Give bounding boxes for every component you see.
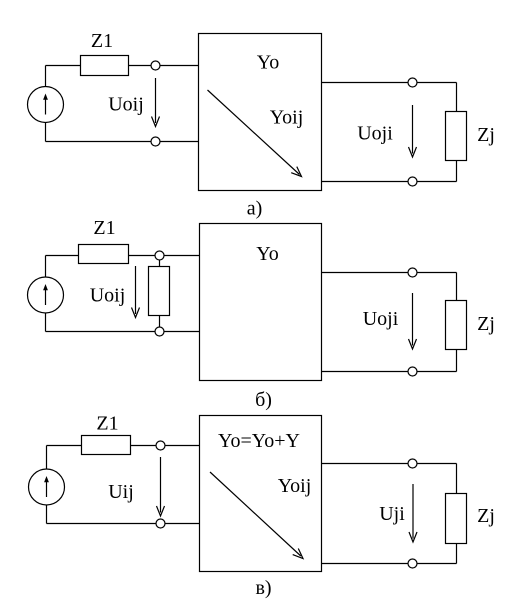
current source J1 circle (a) <box>28 87 64 123</box>
wire: b) shunt stub top <box>159 260 161 267</box>
svg-text:Yo=Yo+Y: Yo=Yo+Y <box>218 430 300 452</box>
wire: b) right bottom from box to load <box>322 371 457 373</box>
svg-text:Zj: Zj <box>477 313 495 335</box>
voltage arrow Uij (v) <box>157 457 165 516</box>
svg-text:Z1: Z1 <box>93 217 115 239</box>
svg-text:Uoij: Uoij <box>108 94 144 116</box>
svg-text:а): а) <box>247 198 263 220</box>
wire: b) right vertical from load bottom <box>456 350 458 372</box>
wire: b) shunt stub bottom <box>159 316 161 328</box>
terminal: a) output top <box>408 78 417 87</box>
wire: v) top from source to box <box>47 445 200 447</box>
wire: v) right vertical from load bottom <box>456 544 458 564</box>
terminal: v) output top <box>408 459 417 468</box>
current source J1 circle (b) <box>28 277 64 313</box>
load impedance Zj (b) <box>446 301 467 350</box>
svg-text:в): в) <box>255 577 271 599</box>
wire: b) right vertical to load top <box>456 273 458 301</box>
two-port network box Yo=Yo+Y (v) <box>200 416 322 572</box>
terminal: a) input bottom <box>151 137 160 146</box>
transfer arrow Yoij (v) <box>210 472 303 559</box>
svg-text:Z1: Z1 <box>91 30 113 52</box>
terminal: b) input bottom <box>155 327 164 336</box>
svg-text:Zj: Zj <box>477 505 495 527</box>
svg-text:Zj: Zj <box>477 124 495 146</box>
svg-text:Uji: Uji <box>379 503 405 525</box>
svg-text:Uoji: Uoji <box>363 308 399 330</box>
wire: a) left vertical source bottom <box>45 123 47 142</box>
wire: a) right bottom from box to load <box>322 181 457 183</box>
current source J1 circle (v) <box>29 469 65 505</box>
load impedance Zj (a) <box>446 112 467 161</box>
two-port network box Yo (b) <box>200 224 322 381</box>
svg-text:Yo: Yo <box>256 243 278 265</box>
svg-text:Uij: Uij <box>108 481 134 503</box>
svg-text:Uoji: Uoji <box>357 123 393 145</box>
terminal: b) output top <box>408 268 417 277</box>
svg-text:Z1: Z1 <box>96 413 118 435</box>
svg-text:Uoij: Uoij <box>90 285 126 307</box>
current source J1 arrow (b) <box>43 284 48 305</box>
wire: a) left vertical source top <box>45 66 47 87</box>
terminal: a) output bottom <box>408 177 417 186</box>
voltage arrow Uji (v) <box>409 484 417 542</box>
wire: a) top from source to box <box>46 65 199 67</box>
svg-text:Yo: Yo <box>257 52 279 74</box>
wire: v) bottom from source to box <box>47 523 200 525</box>
wire: a) right vertical from load bottom <box>456 161 458 182</box>
transfer arrow Yoij (a) <box>208 90 302 177</box>
voltage arrow Uoij (a) <box>152 78 160 127</box>
voltage arrow Uoij (b) <box>132 266 140 318</box>
svg-text:б): б) <box>255 389 272 411</box>
wire: v) right vertical to load top <box>456 464 458 494</box>
wire: b) left vertical source bottom <box>45 313 47 332</box>
current source J1 arrow (v) <box>44 476 49 497</box>
terminal: v) input bottom <box>156 519 165 528</box>
wire: a) bottom from source to box <box>46 141 199 143</box>
terminal: a) input top <box>151 61 160 70</box>
terminal: v) input top <box>156 441 165 450</box>
wire: v) right top from box to load <box>322 463 457 465</box>
terminal: v) output bottom <box>408 559 417 568</box>
resistor Z1 (a) <box>81 56 129 76</box>
voltage arrow Uoji (b) <box>409 293 417 349</box>
shunt admittance rect (b) <box>149 267 170 316</box>
wire: b) bottom from source to box <box>46 331 200 333</box>
wire: b) left vertical source top <box>45 256 47 278</box>
svg-text:Yoij: Yoij <box>278 475 312 497</box>
current source J1 arrow (a) <box>43 94 48 115</box>
wire: v) right bottom from box to load <box>322 563 457 565</box>
wire: b) right top from box to load <box>322 272 457 274</box>
resistor Z1 (b) <box>79 245 129 264</box>
load impedance Zj (v) <box>446 494 467 544</box>
wire: a) right vertical to load top <box>456 83 458 112</box>
resistor Z1 (v) <box>82 436 131 455</box>
two-port network box Yo (a) <box>199 34 322 191</box>
wire: v) left vertical source top <box>46 446 48 470</box>
wire: a) right top from box to load <box>322 82 457 84</box>
svg-text:Yoij: Yoij <box>270 107 304 129</box>
terminal: b) input top <box>155 251 164 260</box>
voltage arrow Uoji (a) <box>409 105 417 157</box>
wire: v) left vertical source bottom <box>46 505 48 524</box>
terminal: b) output bottom <box>408 367 417 376</box>
wire: b) top from source to box <box>46 255 200 257</box>
